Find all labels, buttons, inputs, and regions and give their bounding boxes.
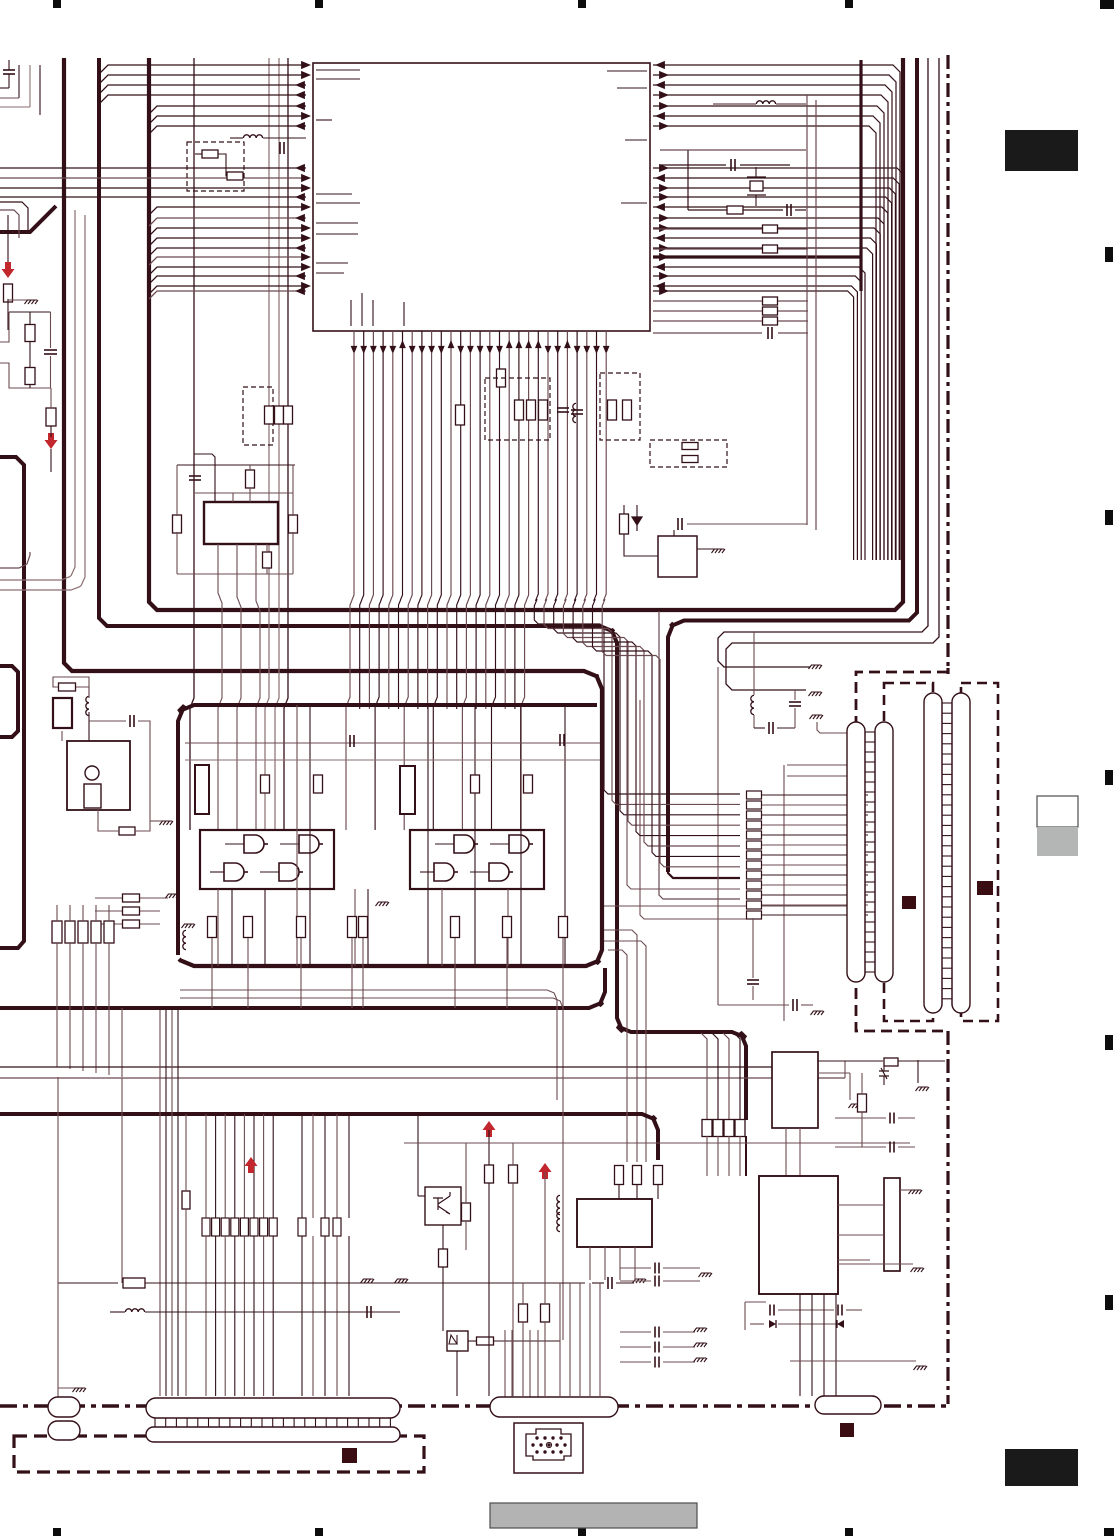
red arrow down left 2	[45, 433, 58, 449]
ground below gates 2	[376, 902, 390, 906]
thin corners top left	[0, 202, 28, 230]
wire xtal top	[713, 103, 756, 105]
wire x122 down to resistor line	[121, 1078, 123, 1283]
registration mark bottom 4	[845, 1528, 853, 1536]
trio wires	[95, 897, 122, 899]
left network wires	[9, 311, 51, 313]
inductor on pin x576	[573, 403, 576, 422]
wires U7 right	[838, 1204, 884, 1206]
subcircuit ground right	[160, 821, 174, 825]
capacitor C vertical x795	[789, 701, 801, 703]
subcircuit resistor top	[59, 683, 76, 691]
light verticals left	[0, 210, 75, 580]
IC U8 body	[204, 502, 278, 544]
connector CN2 stadium B	[952, 693, 970, 1013]
bus frame outline 2 right part	[668, 58, 917, 872]
caps lower centre	[607, 1277, 609, 1289]
thin channel line right 2	[726, 58, 939, 690]
capacitor C xtal2	[786, 204, 788, 216]
gate block internal verticals	[296, 705, 298, 966]
junction drop from y1078	[844, 1061, 846, 1078]
ground right of array	[909, 1190, 923, 1194]
vertical wire left column	[57, 1077, 59, 1397]
wire vertical x279	[275, 58, 279, 830]
connector CN1 pin ladder	[865, 731, 875, 733]
registration mark top 2	[315, 0, 323, 8]
coil below gates	[183, 930, 186, 949]
caps below U5	[654, 1263, 656, 1274]
DIN connector pins	[535, 1436, 538, 1439]
arrowheads bundle B at U1 left	[295, 164, 305, 172]
arrowheads bundle A at U1 left	[301, 61, 311, 69]
DIN connector body	[514, 1423, 583, 1473]
ground bottom right section	[914, 1366, 928, 1370]
wires down to connector centre	[559, 1283, 561, 1396]
resistor right of opto	[477, 1337, 494, 1345]
wire xtal left vertical	[687, 150, 689, 210]
dashed box filter top-left	[187, 142, 244, 191]
inner dashed box CN1	[884, 683, 933, 1021]
vertical resistor right section	[858, 1094, 867, 1112]
wire xtal mid	[660, 164, 726, 166]
resistor small box circuit	[620, 514, 629, 534]
ground U7 right lower	[911, 1268, 925, 1272]
wire left arrow1	[7, 215, 9, 262]
left bundle verticals to bottom	[56, 1008, 58, 1067]
registration mark bottom 2	[315, 1528, 323, 1536]
resistor quad row	[702, 1120, 712, 1137]
U1 inner pin stubs left	[316, 69, 360, 71]
bus frame outline 2 left part (steps down at x617)	[99, 58, 746, 1120]
resistor on pin x501	[497, 369, 506, 387]
U4 gate wires	[435, 843, 454, 845]
wires below U8 to gate block	[218, 544, 222, 830]
coil left of U5	[557, 1195, 560, 1214]
U4 gates	[454, 835, 474, 853]
diode D below U7 left	[769, 1320, 776, 1328]
subcircuit wires	[53, 677, 89, 698]
optocoupler box	[447, 1331, 468, 1351]
resistor in box mid-right	[608, 400, 617, 420]
wire to bottom-right of group	[465, 1143, 467, 1203]
wires below U7	[744, 1302, 746, 1330]
resistor above U8	[246, 470, 255, 488]
IC U5 left body	[577, 1199, 652, 1247]
wires U7 to connector	[799, 1294, 801, 1396]
registration mark bottom right corner	[1104, 1528, 1114, 1536]
resistor in dashed box 2	[227, 172, 243, 180]
wires mid verticals	[488, 1130, 490, 1165]
arrowheads right of U1 upper	[655, 61, 665, 69]
wire Q1 down	[442, 1267, 444, 1331]
gate block horizontal wires	[185, 742, 600, 744]
DIN connector inner shape	[526, 1429, 571, 1460]
wire xtal bottom	[688, 209, 727, 211]
wire coil feed	[753, 632, 755, 695]
horizontal long wires lower left	[0, 1066, 815, 1068]
registration mark right edge 4	[1105, 1035, 1113, 1050]
wires resistor quad down	[706, 1136, 708, 1176]
left network cap	[44, 349, 57, 351]
black label block top right	[1005, 130, 1078, 171]
ground G U2	[712, 549, 726, 553]
capacitor C mid	[571, 409, 583, 411]
dashed box mid resistors	[485, 378, 550, 440]
capacitor left edge top	[3, 69, 15, 71]
five resistor row bottom-left	[52, 921, 62, 943]
capacitor C gate1	[349, 735, 351, 747]
wire dashed box internals	[195, 153, 202, 155]
red arrow up lower-left	[245, 1157, 258, 1173]
feed row 9 from channel	[627, 640, 740, 889]
wires mid lower	[522, 1283, 524, 1304]
left network resistor 1	[25, 325, 35, 342]
colour swatch grey	[1037, 827, 1078, 856]
wire vertical x269	[265, 58, 269, 830]
wires opto	[468, 1340, 477, 1342]
wires left edge top	[8, 60, 10, 70]
connector CN2 stadium A	[924, 693, 942, 1013]
wire bundle B into U1 left	[0, 167, 306, 169]
ground left bottom	[73, 1388, 87, 1392]
wires Q1	[417, 1114, 419, 1196]
bus frame outline 3 (outer thick, becomes gate block right edge)	[64, 58, 602, 966]
dash-dot border elbow to connector box	[946, 668, 949, 674]
outline2 right tail to ladder row	[668, 866, 740, 878]
resistors in mid dashed box	[515, 400, 524, 420]
caps right mid	[889, 1113, 891, 1124]
wire ground3 to stadium	[817, 722, 849, 733]
capacitor on coil line	[366, 1306, 368, 1318]
dash-dot border vertical lower right	[946, 1031, 949, 1404]
dashed box around resistor x269	[243, 387, 273, 445]
ground left small	[25, 300, 39, 304]
connector CN10 right stadium	[815, 1396, 881, 1414]
wire U2 connections	[624, 534, 658, 556]
red arrow down left 1	[2, 262, 15, 278]
wire branch x194 to U8	[194, 454, 215, 502]
wire inductor feed	[230, 137, 243, 139]
inner dashed box CN2	[961, 683, 998, 1021]
U1 inner stubs bottom-left	[350, 300, 352, 326]
wire U6 right resistor	[818, 1060, 883, 1062]
subcircuit resistor bottom	[119, 827, 135, 835]
wire single resistor	[185, 1114, 187, 1191]
dashed box right pair	[650, 440, 727, 467]
resistor in dashed box 1	[202, 150, 218, 158]
vertical wire pair right mid	[806, 95, 808, 525]
registration mark bottom 3	[578, 1528, 586, 1536]
ground wire stub lower1	[361, 1279, 375, 1283]
connector CN8 wide stadium A	[146, 1398, 400, 1418]
wire bundle lower group3	[301, 1114, 303, 1218]
trimmer cap symbol	[879, 1068, 889, 1079]
resistor R xtal	[727, 206, 743, 214]
cap rows lower left of section	[654, 1327, 656, 1338]
capacitor series right	[767, 327, 769, 339]
wires U5 bottom	[589, 1247, 591, 1280]
arrowheads right of U1 lower	[659, 164, 669, 172]
capacitor C below ladder	[792, 999, 794, 1011]
gate block frame left and top	[178, 705, 597, 955]
subcircuit connector box	[53, 698, 72, 728]
resistors inside gate block	[261, 775, 270, 793]
series resistors right of U1	[763, 225, 778, 233]
ground trio	[166, 894, 180, 898]
horizontal wire with coil lower	[110, 1311, 125, 1313]
wire bundle lower-left group2 with resistors	[205, 1114, 207, 1218]
arrowheads U1 bottom pins	[351, 346, 358, 354]
IC U7 main body	[759, 1176, 838, 1294]
board label square CN1	[902, 896, 916, 909]
resistors below gate block	[208, 917, 217, 938]
connector small oval left B	[48, 1421, 80, 1440]
caps below U7	[769, 1305, 771, 1316]
U1 bottom pin bundle continues	[346, 352, 354, 830]
colour swatch white	[1037, 796, 1078, 827]
wire single vertical x659	[659, 611, 740, 899]
registration mark right edge 2	[1105, 510, 1113, 525]
capacitor C ladder	[768, 722, 770, 734]
wires from gates to rung ladder	[604, 905, 863, 907]
wires ladder to connector	[762, 794, 868, 796]
wires below gate block	[211, 938, 213, 1008]
resistor horizontal right of transistor	[462, 1203, 471, 1221]
subcircuit box amp	[67, 741, 130, 810]
wire bundle A into U1 left	[100, 65, 306, 73]
registration mark right edge 3	[1105, 770, 1113, 785]
connector CN8 wide stadium B	[146, 1427, 400, 1442]
connector CN1 stadium A	[847, 722, 865, 982]
resistor left edge	[4, 284, 13, 302]
horizontal wire with resistor R lower	[58, 1282, 118, 1284]
thin channel line right 1 tail down	[717, 667, 719, 1005]
ground right of U6	[916, 1087, 930, 1091]
capacitor C gate2	[559, 734, 561, 746]
wire U6 right2	[818, 1072, 850, 1074]
capacitor C xtal1	[730, 159, 732, 171]
resistor pair mid lower	[519, 1304, 528, 1322]
dashed box bottom left	[14, 1436, 424, 1472]
dash-dot border vertical right	[946, 55, 949, 668]
connector small oval left A	[48, 1397, 80, 1417]
inductor L1 top	[243, 135, 262, 138]
thick tail to U7	[745, 1136, 747, 1176]
thick L left edge y457 to y948	[0, 457, 24, 948]
board square below CN10	[840, 1423, 854, 1437]
bus taps down to resistor quad	[701, 1033, 707, 1120]
quad NAND IC U4 body	[410, 830, 544, 889]
left resistor 3	[46, 408, 56, 426]
wires around U8	[177, 464, 295, 466]
wires from gates corner down right	[604, 930, 637, 1162]
wires series right	[653, 228, 762, 230]
thick bus bottom long	[0, 1114, 658, 1160]
resistor right of U8	[289, 515, 298, 533]
thick Z bracket left edge lower	[0, 666, 18, 737]
resistor pair mid verticals	[485, 1165, 494, 1183]
red arrow up mid	[483, 1121, 496, 1137]
connector CN2 pin ladder	[942, 702, 952, 704]
wires five resistors	[56, 905, 58, 921]
resistors in right dashed box	[682, 443, 698, 450]
capacitor C ladder bottom2	[747, 979, 759, 981]
transistor symbol in box	[85, 766, 99, 780]
resistor on x279	[275, 406, 284, 424]
resistor ladder column	[747, 791, 762, 799]
capacitor C1 top	[279, 142, 281, 154]
IC U6 top small body	[772, 1052, 818, 1128]
thin channel line right 1	[718, 58, 928, 667]
wires U6 bottom	[785, 1128, 787, 1176]
registration mark top 1	[53, 0, 61, 8]
microcontroller U1 body	[313, 63, 650, 331]
registration mark top 3	[578, 0, 586, 8]
outer dashed connector box	[856, 672, 948, 1031]
grey title bar bottom	[490, 1503, 697, 1528]
wires U5 top	[618, 1185, 620, 1199]
tall resistor array right	[884, 1178, 900, 1271]
subcircuit inductor	[86, 696, 89, 715]
wire bundle right of U1 upper	[653, 65, 900, 560]
red arrow up mid2	[539, 1163, 552, 1179]
capacitor on x194	[189, 475, 201, 477]
bus frame outline 1 (inner)	[149, 58, 903, 610]
board square in dashed box	[342, 1448, 357, 1463]
left network resistor 2	[25, 368, 35, 385]
single resistor lower-left	[182, 1191, 190, 1209]
wire bundle lower-left group1	[159, 1010, 161, 1396]
connector CN9 centre stadium	[490, 1397, 618, 1417]
extra wires into CN9	[504, 1330, 506, 1398]
registration mark top right corner	[1100, 0, 1114, 9]
wire vertical x288	[284, 58, 288, 830]
horizontal wires below gate block	[180, 990, 557, 1100]
left network wires 2	[29, 312, 31, 325]
thick wire corner right	[859, 60, 862, 291]
U3 gates	[244, 835, 264, 853]
diode D1	[632, 517, 642, 531]
crystal X1	[750, 181, 763, 191]
resistor array tall box right	[400, 766, 415, 814]
horizontal wire y1143	[404, 1142, 910, 1144]
ground below gates 1	[182, 924, 196, 928]
resistor below U8	[263, 552, 272, 568]
IC U2 small box	[658, 536, 697, 577]
inductor L2	[756, 101, 775, 104]
resistor below Q1	[439, 1249, 448, 1267]
dash-dot border bottom	[0, 1404, 946, 1408]
inductor L3 ladder top	[751, 695, 754, 714]
board label square CN2	[977, 881, 993, 895]
resistor trio above U5	[615, 1166, 624, 1185]
rung feed wires upper	[787, 764, 863, 766]
ground below U5	[699, 1273, 713, 1277]
registration mark right edge 1	[1105, 247, 1113, 262]
wire bundle right of U1 lower	[653, 168, 903, 560]
resistor on x288	[284, 406, 293, 424]
U3 gate wires	[225, 843, 244, 845]
connector CN1 stadium B	[875, 722, 893, 982]
thick bus below gate block	[0, 968, 605, 1008]
coil on right lower	[557, 1212, 560, 1231]
grounds right column	[809, 665, 823, 669]
dashed box mid-right	[600, 373, 640, 440]
U1 bottom pin bundle	[353, 331, 355, 352]
quad NAND IC U3 body	[200, 830, 334, 889]
thick stub left edge y232 with diagonal	[0, 206, 56, 232]
registration mark bottom 1	[53, 1528, 61, 1536]
capacitor on pin x563	[557, 407, 569, 409]
ground below ladder	[811, 1011, 825, 1015]
registration mark top 4	[845, 0, 853, 8]
wire vertical x194	[190, 58, 194, 830]
transistor Q1 box	[425, 1187, 461, 1225]
capacitor C small	[677, 518, 679, 530]
resistor array tall box left	[195, 765, 209, 814]
feed row 11 from left	[640, 700, 746, 919]
black label block bottom right	[1005, 1449, 1078, 1486]
stacked resistors trio	[123, 894, 140, 902]
U1 inner pin stubs right	[607, 70, 647, 72]
connector CN8 pin combs	[154, 1418, 156, 1427]
registration mark right edge 5	[1105, 1295, 1113, 1310]
diode D below U7 right	[837, 1320, 844, 1328]
wire from small box cap to pair	[687, 523, 807, 525]
resistor left of U8	[173, 515, 182, 533]
third channel descender	[608, 950, 627, 1162]
resistor R mid	[456, 405, 465, 425]
subcircuit cap	[129, 715, 131, 727]
resistor on x269	[265, 406, 274, 424]
